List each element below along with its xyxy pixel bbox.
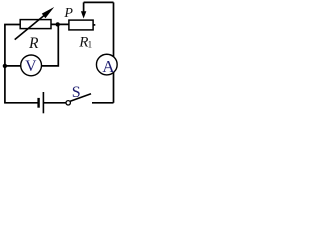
battery positive long plate (42, 92, 44, 113)
wire left vertical (4, 25, 6, 103)
switch pivot circle (66, 101, 70, 105)
switch S blade (70, 94, 91, 102)
wire battery to switch (43, 102, 66, 104)
voltmeter U=V circle (21, 55, 42, 76)
rheostat arrowhead (42, 7, 54, 18)
wire right vertical lower (113, 72, 115, 103)
ammeter U=A circle (96, 54, 117, 75)
rheostat arrow shaft (15, 14, 47, 40)
wire junction down to voltmeter branch (42, 24, 58, 66)
node junction dot (56, 22, 60, 26)
svg-text:1: 1 (88, 40, 93, 50)
svg-text:P: P (63, 6, 73, 21)
resistor R1 box (69, 20, 93, 30)
wire R to junction to R1 (51, 23, 69, 25)
wire top-left horizontal (4, 24, 20, 26)
node left-wall junction dot (3, 64, 7, 68)
wire right vertical upper (113, 2, 115, 57)
resistor R (rheostat box) (20, 20, 51, 29)
slider arrowhead (81, 11, 86, 18)
battery negative short plate (37, 98, 39, 108)
wire R1 right stub (93, 24, 95, 26)
svg-text:V: V (25, 58, 37, 75)
svg-text:S: S (72, 84, 81, 101)
slider arrow P shaft (83, 2, 85, 12)
wire bottom-left horizontal (4, 102, 38, 104)
wire bottom-right horizontal (92, 102, 114, 104)
wire top-right horizontal (84, 1, 114, 3)
svg-text:R: R (28, 35, 39, 52)
wire voltmeter left to wall (5, 65, 21, 67)
